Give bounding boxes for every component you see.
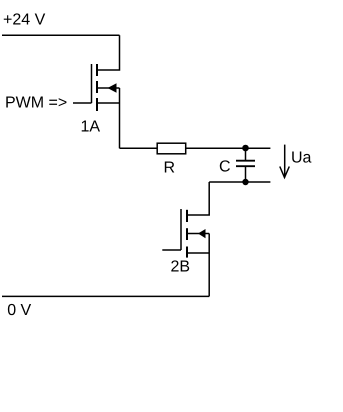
transistor 2B channel bar [186, 210, 188, 258]
resistor R1 body [157, 143, 186, 154]
transistor 1A source wire [97, 102, 120, 104]
transistor 1A gate [91, 64, 93, 103]
svg-text:PWM =>: PWM => [5, 95, 67, 112]
capacitor C bottom plate [236, 165, 255, 167]
svg-text:1A: 1A [81, 118, 101, 135]
transistor 1A channel bar [96, 64, 98, 111]
svg-text:2B: 2B [171, 258, 191, 275]
wire 2B drain up [187, 182, 210, 215]
wire node to capacitor top [245, 148, 247, 160]
wire capacitor bottom to node [245, 166, 247, 182]
wire bottom rail of output [209, 181, 270, 183]
svg-text:C: C [219, 159, 231, 176]
transistor 2B gate [180, 209, 182, 250]
wire 1A source down [119, 103, 121, 148]
wire 1A source to node [120, 147, 271, 149]
svg-text:Ua: Ua [291, 150, 312, 167]
svg-text:+24 V: +24 V [3, 12, 46, 29]
node A junction dot top [242, 145, 249, 152]
wire 2B gate stub [162, 249, 181, 251]
wire 1A body to source [119, 88, 121, 103]
wire 1A drain to +24V rail [97, 35, 120, 70]
arrow Ua output voltage [284, 145, 286, 178]
wire PWM to 1A gate [73, 102, 92, 104]
capacitor C top plate [236, 160, 255, 162]
wire +24V rail [2, 34, 120, 36]
transistor 2B body wire with arrow [187, 233, 209, 235]
wire 2B source down to 0V rail [208, 253, 210, 296]
transistor 1A body wire with arrow [97, 87, 120, 89]
node B junction dot bottom [242, 179, 248, 185]
transistor 2B source wire [187, 252, 209, 254]
wire 0V rail [2, 295, 209, 297]
svg-text:0 V: 0 V [7, 302, 31, 319]
wire 2B body to source [208, 234, 210, 254]
svg-text:R: R [164, 160, 176, 177]
